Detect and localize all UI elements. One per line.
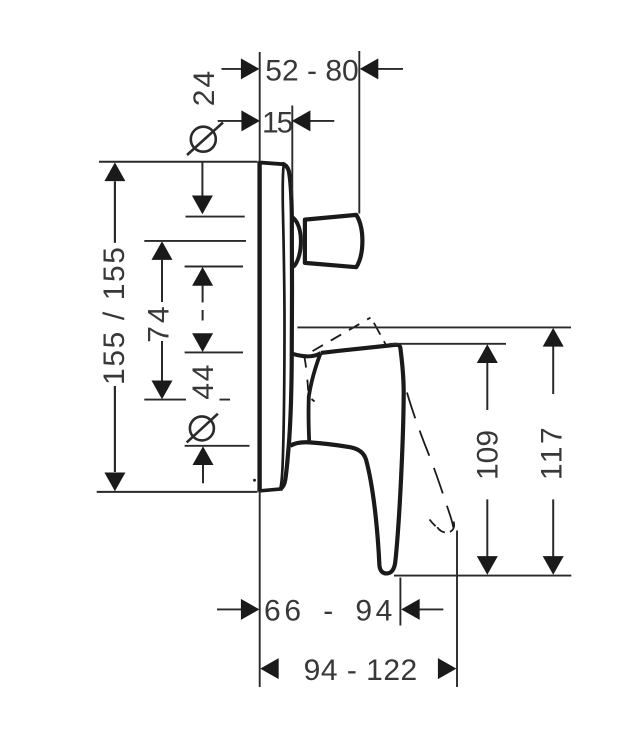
tick line plate bottom y=491.9: [97, 491, 258, 493]
dimension 109 line: [486, 363, 488, 558]
arrow 74 bottom: [152, 381, 173, 400]
arrow O24 down: [192, 196, 213, 215]
tick line 74 top y=240.9: [144, 240, 246, 242]
arrow 117 bottom: [543, 556, 564, 575]
label O44 diameter symbol: [190, 416, 214, 440]
svg-text:52 - 80: 52 - 80: [265, 55, 358, 88]
arrow 155 bottom: [104, 473, 125, 492]
dashed lever top edge (alternate position): [307, 318, 371, 355]
dashed lever right edge (swung position): [404, 381, 453, 528]
wall plate back edge: [257, 162, 261, 492]
arrow 66-94 left: [241, 599, 260, 620]
lever mount edge / boss left edge: [309, 353, 321, 441]
dashed mount tick: [312, 399, 315, 402]
tick line 117 top y=327.4: [297, 326, 571, 328]
tick line boss top y=352.4: [185, 351, 243, 353]
arrow 109 bottom: [477, 556, 498, 575]
arrow up at knob bottom: [192, 267, 213, 286]
wall plate front face: [281, 164, 293, 489]
extension line x=400.4 (66-94 right / lever tip): [399, 578, 401, 626]
dimension 66-94 line: [217, 608, 443, 610]
tick line knob bottom y=266.5: [185, 266, 243, 268]
dashed lever tip return: [430, 520, 441, 531]
arrow 15 left: [241, 110, 260, 131]
arrow 94-122 right: [438, 658, 457, 679]
arrow 94-122 left: [260, 658, 279, 679]
svg-text:155 / 155: 155 / 155: [98, 245, 131, 385]
wall plate bottom edge: [258, 489, 282, 491]
arrow 15 right: [292, 110, 311, 131]
extension line x=359.3 (52-80 right / knob face): [358, 51, 360, 214]
svg-text:74: 74: [143, 303, 176, 342]
dashed lever tip hook: [437, 522, 454, 533]
tick line bottom y=575.6: [394, 575, 571, 577]
dashed lever corner descent: [371, 318, 387, 347]
arrow 52-80 right: [360, 58, 379, 79]
wall plate bottom-left speck: [253, 479, 256, 482]
dashed lever mount edge: [304, 357, 308, 393]
arrow 109 top: [477, 344, 498, 363]
knob neck arc: [292, 217, 301, 267]
dimension 117 line: [552, 346, 554, 557]
arrow 52-80 left: [241, 58, 260, 79]
dimension 155/155 line: [114, 181, 116, 472]
arrow down at boss top line: [192, 333, 213, 352]
arrow 117 top: [543, 328, 564, 347]
leader line O24 stem: [201, 162, 203, 200]
wall plate top edge: [258, 162, 283, 164]
dimension 15 line: [218, 120, 335, 122]
wall plate inner edge line: [281, 166, 285, 488]
svg-text:94 - 122: 94 - 122: [304, 654, 418, 687]
knob body (O24 handle): [305, 215, 363, 267]
svg-text:15: 15: [262, 107, 293, 140]
tick line boss bottom y=445.8: [185, 445, 250, 447]
tick line plate top y=161.7: [99, 161, 258, 163]
dimension 52-80 line: [222, 68, 404, 70]
stem below boss-bottom arrow: [202, 465, 204, 484]
svg-text:66 - 94: 66 - 94: [264, 595, 396, 628]
tick line 74 bottom y=398.7: [144, 399, 230, 401]
tick line knob top y=216.6: [186, 216, 245, 218]
svg-text:109: 109: [472, 430, 505, 480]
lever boss top edge: [292, 353, 321, 356]
svg-text:117: 117: [536, 425, 569, 480]
extension line left (52-80 / 15 / 66-94 / 94-122, wall plane x=259.7): [259, 52, 261, 687]
extension line x=292.3 (15 right / plate front): [291, 106, 293, 197]
label O24 diameter symbol: [191, 127, 216, 152]
arrow 155 top: [104, 162, 125, 181]
dimension 74 line: [161, 260, 163, 381]
svg-text:24: 24: [188, 69, 221, 106]
arrow 74 top: [152, 241, 173, 260]
arrow up at boss bottom line: [193, 446, 214, 465]
svg-text:44: 44: [187, 363, 220, 400]
stem dashes between knob-bottom and boss-top arrows: [202, 286, 204, 321]
lever handle outline: [290, 345, 403, 574]
tick line 109 top y=343.8: [390, 343, 507, 345]
extension line x=457 (94-122 right / dashed lever tip): [456, 531, 458, 688]
arrow 66-94 right: [401, 599, 420, 620]
